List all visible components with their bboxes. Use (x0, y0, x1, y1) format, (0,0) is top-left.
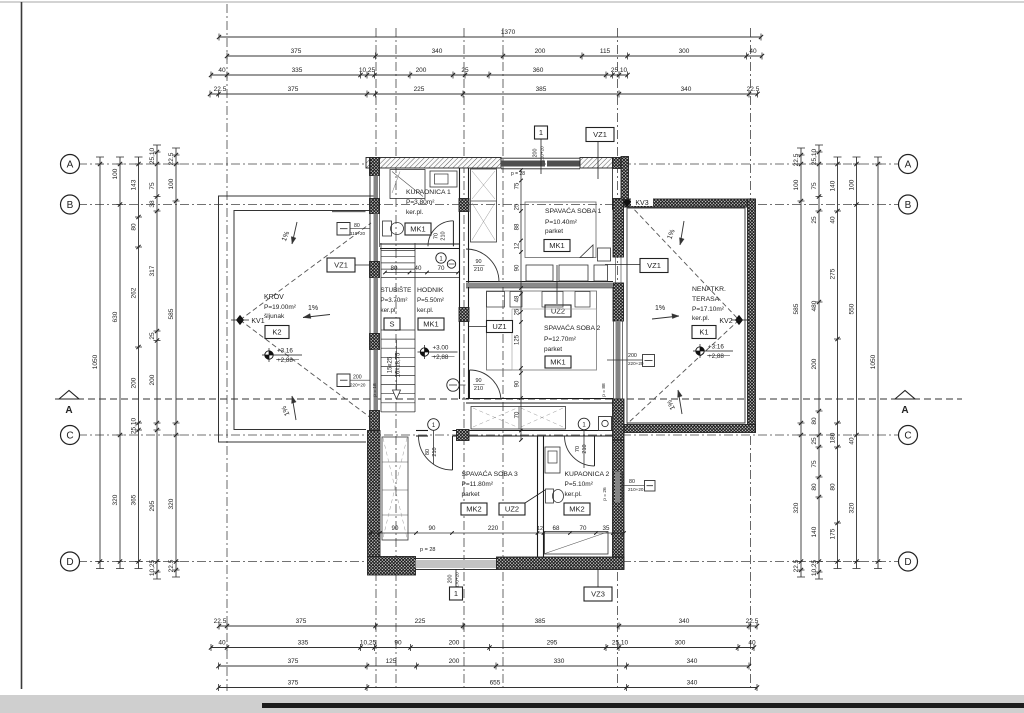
horizontal grid line D (y=561.5) (78, 561, 899, 563)
svg-text:P=3.80m²: P=3.80m² (406, 199, 435, 206)
svg-text:88: 88 (515, 223, 521, 230)
survey point hodnik (420, 348, 428, 356)
svg-text:385: 385 (535, 618, 546, 625)
svg-text:KUPAONICA 1: KUPAONICA 1 (406, 189, 451, 196)
svg-text:10,25: 10,25 (359, 67, 376, 74)
svg-text:140: 140 (830, 180, 837, 191)
svg-text:1050: 1050 (870, 354, 877, 369)
stair side rails (380, 243, 382, 412)
house bottom entry band (416, 560, 497, 568)
small circle top (447, 260, 455, 268)
stair treads lower (381, 329, 415, 331)
right dimension column x=837.5 (837, 157, 839, 569)
kupaonica2 toilet (546, 489, 554, 503)
svg-text:200: 200 (628, 353, 637, 359)
survey point KROV (265, 351, 273, 359)
svg-text:100: 100 (112, 168, 119, 179)
grid bubble D left (61, 552, 80, 571)
svg-text:220+20: 220+20 (350, 383, 366, 388)
svg-text:KV3: KV3 (635, 200, 648, 207)
svg-text:585: 585 (793, 303, 800, 314)
svg-text:12: 12 (515, 242, 521, 249)
svg-text:HODNIK: HODNIK (417, 287, 444, 294)
bottom dimension row 2 (211, 647, 754, 649)
svg-text:C: C (904, 431, 911, 442)
vertical grid line x=503 (middle) (502, 28, 504, 691)
grid bubble B right (899, 195, 918, 214)
svg-text:D: D (66, 557, 73, 568)
svg-text:p = 28: p = 28 (511, 171, 525, 177)
kupaonica2 shower (545, 532, 609, 555)
UZ1 box label (487, 321, 513, 333)
horizontal grid line B (y=204.5) (78, 204, 899, 206)
svg-text:KV2: KV2 (719, 318, 732, 325)
svg-text:275: 275 (830, 268, 837, 279)
svg-text:1370: 1370 (501, 29, 516, 36)
svg-text:385: 385 (536, 86, 547, 93)
svg-text:MK1: MK1 (549, 241, 564, 250)
grid bubble D right (899, 552, 918, 571)
house right wall window glazing (616, 321, 621, 399)
svg-text:70: 70 (438, 265, 445, 272)
svg-text:630: 630 (112, 311, 119, 322)
svg-text:340: 340 (687, 679, 698, 686)
MK2 box soba3 (461, 503, 487, 515)
svg-text:P=10.40m²: P=10.40m² (545, 219, 578, 226)
svg-text:MK1: MK1 (550, 358, 565, 367)
svg-text:320: 320 (168, 498, 175, 509)
svg-text:585: 585 (168, 308, 175, 319)
svg-text:+2,88: +2,88 (277, 357, 293, 364)
svg-text:90: 90 (515, 264, 521, 271)
svg-text:320: 320 (849, 502, 856, 513)
section line A-A (y=399) (55, 398, 962, 400)
svg-text:P=5.50m²: P=5.50m² (417, 297, 444, 304)
svg-text:375: 375 (296, 618, 307, 625)
svg-text:80: 80 (830, 483, 837, 491)
svg-text:MK2: MK2 (569, 505, 584, 514)
svg-text:210+20: 210+20 (540, 146, 545, 162)
svg-text:1: 1 (539, 128, 543, 137)
svg-text:295: 295 (149, 500, 156, 511)
MK1 box bathroom1 (405, 223, 431, 235)
svg-text:200: 200 (131, 377, 138, 388)
svg-text:90: 90 (429, 525, 436, 532)
window marker right wall (643, 355, 655, 367)
soba2 pillows (487, 292, 505, 308)
svg-text:375: 375 (288, 679, 299, 686)
KV2 marker diamond (736, 316, 743, 325)
svg-text:70: 70 (434, 233, 440, 239)
svg-text:340: 340 (681, 86, 692, 93)
bathroom1 washer (430, 171, 457, 187)
svg-text:1%: 1% (655, 305, 665, 312)
svg-text:90: 90 (392, 525, 399, 532)
KROV roof dashed slope line upper (240, 223, 371, 320)
svg-text:300: 300 (675, 639, 686, 646)
svg-text:ker.pl.: ker.pl. (692, 315, 710, 322)
left dimension column x=138.5 (138, 157, 140, 569)
svg-text:MK1: MK1 (423, 320, 438, 329)
KROV wing outer border (219, 196, 379, 442)
stair landing line (381, 277, 459, 279)
circled 1 kupaonica2 (578, 418, 590, 430)
house bottom-left corner block (368, 557, 416, 576)
svg-text:40: 40 (415, 265, 422, 272)
svg-text:MK2: MK2 (466, 505, 481, 514)
house top-right corner pillar (613, 158, 622, 169)
left page border line (21, 2, 23, 689)
svg-text:parket: parket (545, 228, 563, 235)
KROV roof dashed slope line lower (240, 320, 371, 418)
svg-text:100: 100 (168, 178, 175, 189)
interior wall V2 pier (459, 308, 469, 322)
svg-text:330: 330 (554, 658, 565, 665)
left dimension column x=120 (119, 157, 121, 569)
house left wall window 3 glazing (374, 278, 379, 334)
right dimension column x=878 (877, 157, 879, 569)
right wall kupaonica2 window glazing (615, 472, 620, 503)
K1 box label (692, 326, 716, 339)
right dimension column x=819 (818, 145, 820, 579)
svg-text:15x25: 15x25 (388, 356, 394, 373)
window marker left wall lower (337, 374, 350, 387)
house bottom wall right segment (497, 557, 625, 570)
top dimension row 2 (227, 55, 762, 57)
svg-text:38: 38 (149, 200, 156, 208)
bottom black bar (262, 703, 1024, 708)
interior wall V1 pier at B (459, 199, 469, 212)
interior wall V2 hodnik right (459, 248, 461, 399)
interior wall H3 pier (457, 430, 470, 441)
svg-text:25,10: 25,10 (611, 67, 628, 74)
house lower-left wall (368, 431, 381, 557)
vertical grid line house-left (x=376) (375, 28, 377, 691)
TERASA roof dashed slope lower (627, 320, 739, 424)
svg-text:360: 360 (533, 67, 544, 74)
svg-text:225: 225 (415, 618, 426, 625)
house right wall block at section (613, 399, 625, 440)
house left wall pier at B (370, 199, 380, 214)
svg-text:+3.16: +3.16 (277, 348, 293, 355)
interior wall H1 between soba1 and soba2 (466, 283, 613, 288)
svg-text:ker.pl.: ker.pl. (406, 209, 424, 216)
window label 1 box top (540, 139, 542, 174)
KV3 marker diamond (631, 196, 653, 206)
svg-text:22.5: 22.5 (746, 618, 759, 625)
kupaonica2 washbasin (545, 447, 560, 473)
interior wall H3 soba3 top - left part (416, 430, 428, 432)
TERASA roof dashed slope upper (629, 204, 739, 320)
svg-text:75: 75 (149, 182, 156, 190)
left dimension column x=157 (156, 145, 158, 579)
svg-text:70: 70 (515, 411, 521, 418)
soba1 bed (525, 202, 596, 258)
svg-text:40: 40 (849, 437, 856, 445)
svg-text:P=17.10m²: P=17.10m² (692, 306, 725, 313)
svg-text:365: 365 (131, 494, 138, 505)
soba3 corner washbasin box (599, 417, 612, 431)
bottom dimension row 1 (219, 625, 757, 627)
svg-text:KUPAONICA 2: KUPAONICA 2 (565, 471, 610, 478)
MK2 box kupaonica2 (564, 503, 590, 515)
svg-text:170+20: 170+20 (455, 572, 460, 588)
soba3 tall wardrobe (382, 437, 408, 540)
soba2 bed (487, 291, 597, 370)
svg-text:340: 340 (687, 658, 698, 665)
svg-text:VZ1: VZ1 (647, 261, 661, 270)
right dimension column x=856.5 (856, 157, 858, 569)
svg-text:p = 88: p = 88 (601, 383, 607, 397)
bottom dimension row 4 (219, 687, 758, 689)
svg-text:480: 480 (811, 300, 818, 311)
svg-text:317: 317 (149, 265, 156, 276)
svg-text:320: 320 (112, 494, 119, 505)
house left wall window 2 glazing (374, 214, 379, 262)
svg-text:550: 550 (849, 303, 856, 314)
door soba2 entry arc (466, 249, 499, 282)
svg-text:10,25: 10,25 (360, 639, 377, 646)
svg-text:200: 200 (416, 67, 427, 74)
top dimension row 3 (211, 74, 628, 76)
svg-text:25,10: 25,10 (811, 148, 818, 165)
house right wall lower (613, 440, 625, 569)
svg-text:22.5: 22.5 (168, 559, 175, 572)
circled 1 hallway lower (428, 419, 440, 431)
interior wall H2 soba2 bottom (466, 398, 613, 400)
grid bubble A right (899, 155, 918, 174)
house left wall pier 4 / lower wall (370, 411, 380, 431)
svg-text:TERASA: TERASA (692, 296, 720, 303)
svg-text:ker.pl.: ker.pl. (417, 307, 434, 314)
svg-text:220: 220 (488, 525, 499, 532)
house right door-to-terasa jamb upper (612, 169, 614, 199)
svg-text:VZ3: VZ3 (591, 590, 605, 599)
vertical grid line x=750 (terasa right) (750, 28, 752, 691)
circled 1 top of hodnik (436, 253, 446, 263)
TERASA top wall (623, 199, 755, 207)
house right wall mid (613, 283, 624, 321)
svg-text:40: 40 (749, 48, 757, 55)
house left wall window 1 glazing (374, 176, 379, 199)
svg-text:22.5: 22.5 (168, 152, 175, 165)
UZ2 box leader (556, 265, 558, 304)
svg-text:D: D (904, 557, 911, 568)
svg-text:115: 115 (600, 48, 611, 55)
svg-text:22.5: 22.5 (793, 559, 800, 572)
section marker A left (triangle) (59, 391, 79, 400)
svg-text:10,25: 10,25 (811, 559, 818, 576)
svg-text:SPAVAĆA SOBA 2: SPAVAĆA SOBA 2 (544, 323, 601, 332)
svg-text:80: 80 (811, 417, 818, 425)
svg-text:48: 48 (515, 295, 521, 302)
svg-text:200: 200 (449, 639, 460, 646)
svg-text:40: 40 (830, 216, 837, 224)
svg-text:90: 90 (475, 378, 481, 384)
bathroom1 bottom wall (380, 243, 460, 245)
svg-text:375: 375 (291, 48, 302, 55)
svg-text:p = 26: p = 26 (602, 487, 608, 501)
svg-text:1%: 1% (308, 305, 318, 312)
svg-text:STUBIŠTE: STUBIŠTE (381, 285, 412, 294)
svg-text:320: 320 (793, 502, 800, 513)
stair down arrow (396, 340, 398, 390)
door kupaonica2 leaf+arc (594, 436, 596, 466)
svg-text:NENATKR.: NENATKR. (692, 286, 726, 293)
svg-text:110+20: 110+20 (350, 231, 366, 236)
svg-text:375: 375 (288, 86, 299, 93)
TERASA inner border line (627, 208, 745, 423)
VZ1 box top with leader (597, 141, 599, 179)
svg-text:80: 80 (811, 483, 818, 491)
house top wall window (501, 161, 545, 167)
svg-text:S: S (389, 320, 394, 329)
svg-text:P=5.10m²: P=5.10m² (565, 481, 594, 488)
svg-text:P=19.00m²: P=19.00m² (264, 304, 297, 311)
svg-text:125: 125 (515, 334, 521, 345)
svg-text:P=3.70m²: P=3.70m² (381, 297, 408, 304)
svg-text:25,10: 25,10 (131, 417, 138, 434)
TERASA bottom wall (623, 425, 756, 433)
svg-text:200: 200 (149, 374, 156, 385)
svg-text:MK1: MK1 (410, 225, 425, 234)
svg-text:210: 210 (474, 386, 483, 392)
grid bubble C right (899, 426, 918, 445)
bathroom1 shower (390, 170, 425, 199)
svg-text:25,10: 25,10 (612, 639, 629, 646)
svg-text:+2,88: +2,88 (433, 354, 449, 361)
svg-text:25,10: 25,10 (149, 147, 156, 164)
house left wall pier 2 (370, 262, 380, 278)
svg-text:25: 25 (515, 203, 521, 210)
svg-text:KROV: KROV (264, 294, 284, 301)
svg-text:225: 225 (414, 86, 425, 93)
VZ1 box left with leader (352, 264, 371, 266)
door label 1 box bottom (455, 569, 457, 587)
survey point TERASA (696, 347, 704, 355)
circle with dash mid (447, 379, 459, 391)
svg-text:22.5: 22.5 (747, 86, 760, 93)
S box label (384, 318, 400, 330)
svg-text:K2: K2 (272, 328, 281, 337)
svg-text:300: 300 (679, 48, 690, 55)
bottom dimension row 3 (219, 665, 750, 667)
svg-text:80: 80 (629, 479, 635, 485)
svg-text:22.5: 22.5 (214, 618, 227, 625)
svg-text:210: 210 (441, 231, 447, 240)
svg-text:ker.pl.: ker.pl. (565, 491, 583, 498)
svg-text:1: 1 (454, 589, 458, 598)
vertical grid line x=617 (617, 28, 619, 691)
svg-text:25: 25 (515, 308, 521, 315)
svg-text:25: 25 (811, 437, 818, 445)
svg-text:100: 100 (849, 179, 856, 190)
svg-text:210: 210 (582, 444, 588, 453)
svg-text:40: 40 (218, 639, 226, 646)
MK1 box soba2 (545, 356, 571, 368)
top dimension row 1 (1370) (219, 36, 761, 38)
interior wall V4 kupaonica2 left (537, 436, 539, 557)
svg-text:UZ1: UZ1 (492, 322, 506, 331)
TERASA right wall (748, 199, 756, 432)
MK1 box hodnik (418, 318, 444, 330)
svg-text:75: 75 (515, 182, 521, 189)
svg-text:200: 200 (535, 48, 546, 55)
svg-text:A: A (905, 160, 912, 171)
UZ2 box label (545, 305, 571, 317)
KV1 marker diamond (237, 316, 244, 325)
svg-text:200: 200 (533, 149, 539, 158)
horizontal grid line A (y=164) (78, 163, 899, 165)
house right wall terasa door gap frame (613, 256, 624, 258)
soba1 nightstand (598, 248, 611, 261)
svg-text:335: 335 (298, 639, 309, 646)
svg-text:40: 40 (218, 67, 226, 74)
svg-text:180: 180 (830, 432, 837, 443)
house top wall right segment (580, 158, 613, 169)
svg-text:210: 210 (432, 447, 438, 456)
door soba2 lower (swing up) leaf+arc (469, 370, 471, 399)
left dimension column x=100 (1050) (99, 157, 101, 569)
svg-text:VZ1: VZ1 (593, 130, 607, 139)
svg-text:UZ2: UZ2 (551, 307, 565, 316)
svg-text:200: 200 (811, 358, 818, 369)
svg-text:UZ2: UZ2 (505, 505, 519, 514)
svg-text:220+20: 220+20 (628, 361, 644, 366)
svg-text:125: 125 (386, 658, 397, 665)
house right wall pier at B (613, 199, 622, 210)
svg-text:P=11.80m²: P=11.80m² (462, 481, 494, 488)
svg-text:P=12.70m²: P=12.70m² (544, 336, 577, 343)
svg-text:80: 80 (354, 223, 360, 229)
svg-text:+3:16: +3:16 (708, 344, 724, 351)
window marker left wall upper (332, 211, 366, 213)
svg-text:22.5: 22.5 (793, 153, 800, 166)
svg-text:+3.00: +3.00 (433, 345, 449, 352)
svg-text:375: 375 (288, 658, 299, 665)
svg-text:B: B (67, 200, 74, 211)
svg-text:SPAVAĆA SOBA 1: SPAVAĆA SOBA 1 (545, 206, 602, 215)
house right wall upper (613, 199, 624, 257)
right dimension column x=801 (800, 148, 802, 577)
svg-text:90: 90 (394, 639, 402, 646)
svg-text:70: 70 (575, 446, 581, 452)
svg-text:SPAVAĆA SOBA 3: SPAVAĆA SOBA 3 (462, 469, 519, 478)
wardrobe column soba1 (471, 169, 497, 242)
svg-text:VZ1: VZ1 (334, 261, 348, 270)
svg-text:655: 655 (490, 679, 501, 686)
svg-text:parket: parket (462, 491, 480, 498)
grid bubble A left (61, 155, 80, 174)
svg-text:A: A (901, 405, 908, 416)
svg-text:75: 75 (811, 182, 818, 190)
svg-text:35: 35 (603, 525, 610, 532)
house left wall - top corner block (370, 158, 380, 176)
svg-text:340: 340 (679, 618, 690, 625)
svg-text:22.5: 22.5 (214, 86, 227, 93)
MK1 box soba1 (544, 240, 570, 252)
interior dim column (520, 170, 522, 440)
house left wall window 4 glazing (374, 350, 379, 411)
UZ2 box soba3 (499, 503, 525, 515)
bathroom1 toilet (383, 221, 392, 236)
svg-text:+2,88: +2,88 (708, 353, 724, 360)
svg-text:210+20: 210+20 (628, 487, 644, 492)
label 80/210+20 right wall lower (645, 481, 656, 492)
bottom gray band (0, 695, 1024, 713)
soba1 bench row (526, 265, 553, 281)
svg-text:200: 200 (353, 375, 362, 381)
